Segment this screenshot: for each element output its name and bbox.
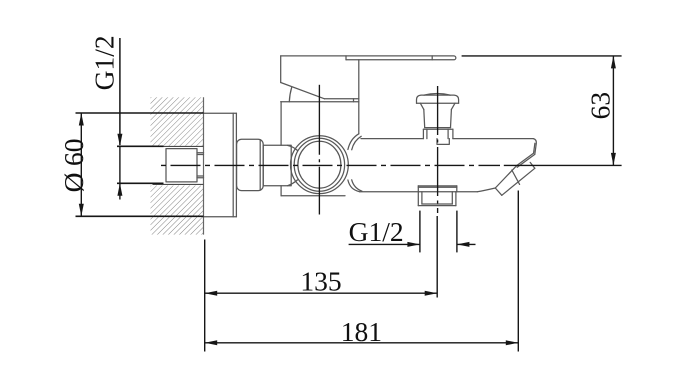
svg-text:135: 135: [300, 266, 341, 297]
svg-text:G1/2: G1/2: [89, 35, 120, 90]
svg-text:63: 63: [585, 92, 616, 120]
svg-text:181: 181: [341, 316, 382, 347]
svg-text:G1/2: G1/2: [349, 216, 404, 247]
svg-text:Ø60: Ø60: [58, 138, 89, 192]
